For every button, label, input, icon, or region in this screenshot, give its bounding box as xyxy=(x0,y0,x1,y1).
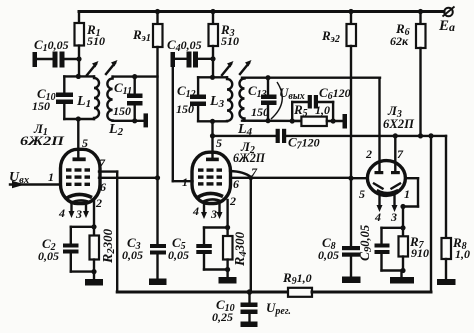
svg-text:510: 510 xyxy=(87,34,105,48)
svg-text:R91,0: R91,0 xyxy=(282,270,312,287)
svg-text:C40,05: C40,05 xyxy=(167,37,202,54)
svg-text:7: 7 xyxy=(251,165,258,179)
svg-text:5: 5 xyxy=(359,187,365,201)
svg-text:1,0: 1,0 xyxy=(315,103,330,117)
svg-text:0,05: 0,05 xyxy=(168,248,189,262)
svg-text:2: 2 xyxy=(229,194,236,208)
svg-text:6: 6 xyxy=(100,180,106,194)
svg-text:5: 5 xyxy=(216,136,222,150)
svg-text:0,05: 0,05 xyxy=(38,249,59,263)
svg-text:6Ж2П: 6Ж2П xyxy=(20,133,65,148)
svg-text:0,05: 0,05 xyxy=(122,248,143,262)
svg-text:3: 3 xyxy=(210,207,217,221)
svg-text:150: 150 xyxy=(251,105,269,119)
svg-text:4: 4 xyxy=(374,210,381,224)
svg-text:2: 2 xyxy=(365,147,372,161)
svg-text:62к: 62к xyxy=(390,34,409,48)
svg-text:510: 510 xyxy=(221,34,239,48)
svg-text:150: 150 xyxy=(32,99,50,113)
svg-text:7: 7 xyxy=(99,156,106,170)
svg-text:6: 6 xyxy=(233,177,239,191)
svg-text:Ea: Ea xyxy=(438,18,455,34)
svg-text:C10,05: C10,05 xyxy=(34,37,69,54)
svg-text:2: 2 xyxy=(95,196,102,210)
svg-text:1: 1 xyxy=(404,187,410,201)
svg-text:4: 4 xyxy=(58,206,65,220)
svg-text:7: 7 xyxy=(397,147,404,161)
svg-text:150: 150 xyxy=(176,102,194,116)
svg-text:R2300: R2300 xyxy=(100,228,117,264)
svg-text:1: 1 xyxy=(48,170,54,184)
svg-text:R4300: R4300 xyxy=(232,231,249,267)
svg-text:C7120: C7120 xyxy=(288,135,320,152)
svg-text:C90,05: C90,05 xyxy=(357,225,374,261)
svg-text:1,0: 1,0 xyxy=(455,247,470,261)
svg-text:0,25: 0,25 xyxy=(212,310,233,324)
svg-text:0,05: 0,05 xyxy=(318,248,339,262)
svg-text:6Х2П: 6Х2П xyxy=(383,117,415,131)
svg-text:4: 4 xyxy=(192,204,199,218)
svg-text:150: 150 xyxy=(113,104,131,118)
svg-text:3: 3 xyxy=(390,210,397,224)
svg-text:6Ж2П: 6Ж2П xyxy=(233,151,266,165)
svg-text:910: 910 xyxy=(411,246,429,260)
svg-text:C6120: C6120 xyxy=(319,85,351,102)
svg-text:1: 1 xyxy=(182,175,188,189)
svg-text:3: 3 xyxy=(75,207,82,221)
